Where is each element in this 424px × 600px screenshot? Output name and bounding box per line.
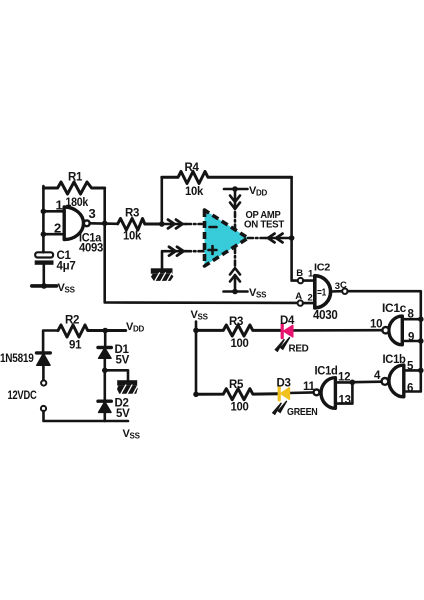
svg-text:3: 3: [89, 206, 96, 221]
wire: IC1a output to R3: [90, 222, 118, 225]
wire: VDD dash-dot into op-amp: [234, 212, 237, 229]
svg-text:10: 10: [370, 319, 382, 331]
light arrows D3: [277, 401, 287, 414]
op-amp plus sign: [209, 246, 217, 254]
svg-text:R1: R1: [68, 172, 83, 184]
wire: right bus down from R4 to op-amp output node and to B: [292, 177, 298, 280]
node: pin9 bus dot: [418, 338, 424, 344]
wire: VDD stub: [224, 188, 248, 191]
wire: pin 9 stub: [402, 340, 421, 343]
wire: pin 13 loop: [335, 382, 352, 403]
wire: pin 5 stub: [404, 369, 421, 372]
ground symbol at plus input: [162, 251, 186, 268]
LED D4 (red): [282, 324, 293, 337]
svg-text:2: 2: [308, 292, 313, 303]
wire: R1 right leg down to output node: [103, 188, 106, 223]
node: R2-D1 junction: [102, 328, 108, 334]
op-amp U1 triangle (device on test): [205, 210, 249, 266]
svg-text:IC1d: IC1d: [315, 366, 338, 378]
NAND gate IC1b (mirrored): [389, 365, 404, 397]
svg-text:R4: R4: [185, 162, 200, 174]
svg-text:180k: 180k: [66, 197, 89, 209]
op-amp minus sign: [210, 226, 217, 229]
arrow chevrons minus input: [168, 220, 183, 229]
svg-text:13: 13: [339, 395, 351, 407]
pin B open circle: [298, 278, 303, 283]
resistor R3: [118, 219, 162, 231]
svg-text:8: 8: [408, 309, 415, 321]
wire: C1 to Vss: [42, 265, 45, 286]
svg-text:9: 9: [408, 332, 414, 344]
wire: pin 2 stub: [43, 233, 64, 236]
wire: pin 12 stub to junction: [335, 381, 352, 384]
LED D3 (green/yellow): [279, 388, 289, 400]
svg-text:VSS: VSS: [58, 282, 76, 295]
svg-text:VDD: VDD: [126, 321, 145, 334]
svg-text:100: 100: [231, 402, 249, 414]
resistor R1: [43, 182, 104, 194]
svg-text:10k: 10k: [185, 186, 204, 198]
arrow: VDD down arrow: [234, 189, 237, 209]
arrow chevrons plus input: [169, 247, 184, 256]
wire: R4 left leg up: [161, 177, 164, 224]
svg-text:5: 5: [407, 361, 414, 373]
svg-text:IC1c: IC1c: [382, 303, 407, 315]
svg-text:100: 100: [231, 338, 249, 350]
node: Vss-R3 junction: [193, 328, 199, 334]
svg-text:2: 2: [54, 221, 61, 236]
svg-text:ON TEST: ON TEST: [244, 219, 285, 231]
arrow: VSS up arrow: [230, 268, 240, 282]
svg-text:1: 1: [56, 198, 63, 213]
svg-text:VDD: VDD: [249, 185, 268, 198]
NAND gate IC1a: [64, 207, 83, 240]
svg-text:4μ7: 4μ7: [57, 261, 76, 273]
NAND gate IC1c (mirrored): [389, 316, 402, 345]
arrow chevrons output pointing left: [268, 234, 283, 243]
wire: to chassis ground: [105, 370, 128, 380]
svg-text:5V: 5V: [116, 408, 130, 420]
resistor R3 (100): [196, 325, 281, 336]
node: junction dot pin2 rail: [41, 231, 47, 237]
svg-text:91: 91: [69, 340, 82, 352]
svg-text:=1: =1: [317, 288, 327, 299]
svg-text:12VDC: 12VDC: [8, 390, 37, 402]
svg-text:A: A: [295, 291, 302, 302]
wire: IC2 output to C circle: [331, 290, 342, 293]
wire: feedback down from output node to A-row: [105, 223, 298, 303]
wire: VSS dash-dot from op-amp: [234, 248, 237, 266]
wire: op-amp output dash-dot: [248, 237, 266, 240]
node: junction dot pin1 rail: [41, 209, 47, 215]
svg-text:VSS: VSS: [191, 309, 209, 322]
wire: minus input solid segment with arrows: [162, 223, 186, 226]
resistor R2: [58, 325, 126, 337]
svg-text:RED: RED: [289, 343, 310, 355]
capacitor C1: [35, 252, 53, 257]
zener diode D2: [104, 370, 107, 400]
wire: VSS stub: [224, 290, 248, 293]
svg-text:6: 6: [407, 383, 413, 395]
svg-text:10k: 10k: [123, 231, 142, 243]
terminal circle bottom: [41, 406, 46, 411]
wire: plus input dash-dot: [186, 250, 205, 253]
wire: pin 8 stub: [402, 318, 421, 321]
wire: output solid to bus: [266, 237, 292, 240]
pin A open circle: [298, 300, 303, 305]
svg-text:D4: D4: [280, 315, 295, 327]
wire: D3 to IC1d pin 11: [289, 391, 314, 394]
wire: C to right bus corner: [348, 291, 421, 391]
resistor R4: [162, 172, 292, 184]
node: Vss-R5 junction: [193, 392, 199, 398]
svg-text:5V: 5V: [116, 355, 130, 367]
svg-text:1N5819: 1N5819: [0, 353, 34, 365]
svg-text:B: B: [296, 268, 303, 279]
wire: D4 to IC1c pin 10: [293, 329, 383, 332]
svg-text:IC1b: IC1b: [383, 354, 406, 366]
svg-text:11: 11: [303, 381, 315, 393]
node: pins 12/13 junction: [350, 380, 356, 386]
svg-text:R3: R3: [125, 208, 139, 220]
wire: left rail from R1 to C1: [42, 186, 45, 252]
XOR gate IC2: [315, 276, 331, 308]
node: D1-D2 junction: [102, 368, 108, 374]
svg-text:4: 4: [374, 370, 381, 382]
wire: bottom rail: [44, 411, 129, 421]
wire: pin 4 to IC1d inputs junction: [352, 380, 381, 383]
svg-text:4030: 4030: [313, 308, 338, 322]
resistor R5 (100): [196, 389, 278, 400]
svg-text:4093: 4093: [79, 243, 103, 255]
node: output bus junction: [289, 235, 295, 241]
svg-text:12: 12: [338, 372, 350, 384]
diode 1N5819: [37, 351, 51, 354]
svg-text:R5: R5: [229, 379, 244, 391]
svg-text:VSS: VSS: [249, 287, 267, 300]
svg-text:VSS: VSS: [123, 428, 141, 441]
wire: minus input dash-dot: [186, 223, 205, 226]
node: pin5 bus dot: [418, 368, 424, 374]
light arrows D4: [280, 337, 291, 350]
svg-text:IC2: IC2: [314, 261, 330, 273]
svg-text:R3: R3: [229, 316, 243, 328]
wire: pin 1 stub: [43, 210, 64, 213]
NAND gate IC1d (mirrored): [321, 378, 335, 409]
wire: R2 top rail: [43, 331, 58, 353]
zener diode D1: [104, 331, 107, 348]
ground Vss bar under C1: [32, 284, 57, 288]
svg-text:R2: R2: [65, 315, 79, 327]
node: output feedback junction: [102, 221, 108, 227]
svg-text:C: C: [340, 280, 347, 291]
chassis ground symbol: [117, 380, 137, 385]
svg-text:GREEN: GREEN: [287, 406, 318, 418]
terminal circle top (12VDC +): [41, 380, 46, 385]
node: pin8 bus dot: [418, 316, 424, 322]
svg-text:D3: D3: [277, 378, 291, 390]
right section Vss rail: [195, 322, 198, 395]
node: R3/R4 junction: [159, 221, 165, 227]
